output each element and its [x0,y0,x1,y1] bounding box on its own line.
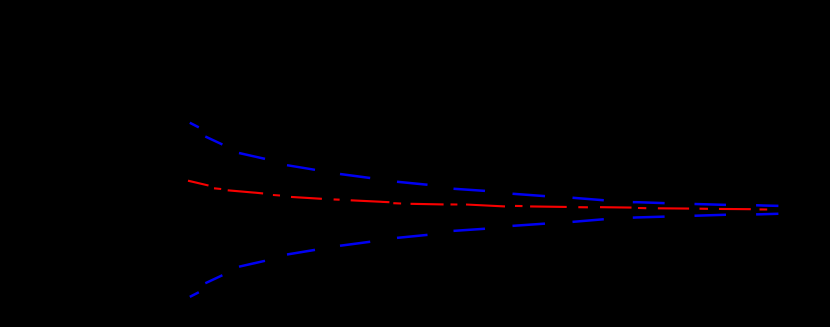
red estimate curve (dash-dot) [188,181,767,210]
blue upper bound curve (dashed) [190,123,779,206]
blue lower bound curve (dashed) [190,214,779,297]
